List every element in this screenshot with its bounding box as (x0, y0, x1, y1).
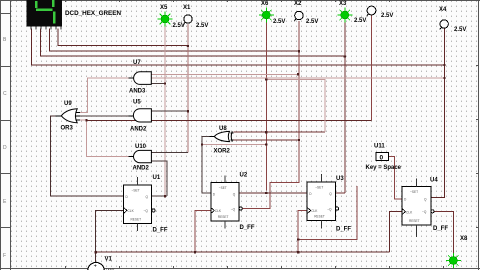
junction on X4 riser at U7 mid line (443, 77, 445, 79)
svg-text:~Q: ~Q (231, 208, 236, 212)
wire X3 riser Q3 (344, 20, 346, 193)
svg-text:~SET: ~SET (315, 186, 323, 190)
svg-text:U9: U9 (64, 101, 72, 107)
junction on X3 riser at pin2 end (344, 55, 346, 57)
svg-text:DCD_HEX_GREEN: DCD_HEX_GREEN (65, 10, 121, 17)
wire U3 CLK riser (298, 211, 307, 253)
svg-text:Key = Space: Key = Space (366, 165, 402, 171)
svg-text:2.5V: 2.5V (381, 13, 393, 19)
svg-text:~Q: ~Q (144, 209, 149, 213)
svg-text:X4: X4 (439, 7, 447, 13)
wire U1 Q line (152, 195, 167, 197)
wire U4 notQ to X8 (435, 211, 454, 256)
flip-flop U2 D_FF (211, 176, 242, 229)
svg-text:U1: U1 (153, 175, 161, 181)
wire U2 CLK riser (195, 211, 211, 253)
svg-text:~Q: ~Q (327, 208, 332, 212)
svg-text:X6: X6 (261, 1, 269, 7)
svg-text:D: D (3, 145, 7, 151)
junction U3 CLK riser main line (297, 251, 299, 253)
svg-text:AND2: AND2 (133, 166, 150, 172)
flip-flop U3 D_FF (307, 174, 339, 229)
wire XOR2 bottom input to X2 riser (234, 139, 299, 141)
probe X3 lit (337, 8, 352, 23)
junction on X2 riser at U7 top line (297, 73, 299, 75)
wire y239 branch (298, 186, 357, 239)
svg-text:CLK: CLK (311, 209, 318, 213)
svg-text:U4: U4 (430, 178, 438, 184)
junction X5 riser at U1 Q line (164, 195, 166, 197)
svg-text:U10: U10 (135, 144, 147, 150)
junction U2 Q at X6 riser (265, 192, 267, 194)
wire OR3 output to U1 D (50, 116, 123, 196)
svg-text:U2: U2 (240, 173, 248, 179)
probe X7 unlit (367, 6, 376, 16)
wire display pin3 to X2 riser (49, 29, 299, 52)
wire main clock line (96, 251, 390, 253)
wire X2 riser to U2 notQ (243, 21, 299, 209)
svg-text:D_FF: D_FF (336, 227, 351, 233)
junction U3 clk riser at y239 branch (297, 238, 299, 240)
wire U10 top input from X1 (151, 152, 188, 154)
junction on X2 riser at XOR bottom line (298, 139, 300, 141)
svg-text:1kHz: 1kHz (106, 267, 115, 270)
svg-text:U8: U8 (219, 126, 227, 132)
junction U2 CLK riser main line (194, 251, 196, 253)
svg-text:U5: U5 (133, 100, 141, 106)
svg-text:D_FF: D_FF (153, 228, 168, 234)
svg-text:AND3: AND3 (129, 89, 146, 95)
svg-text:OR3: OR3 (61, 126, 74, 132)
svg-text:D_FF: D_FF (240, 225, 255, 231)
svg-text:X2: X2 (294, 1, 302, 7)
wire X4 riser Q4 (431, 28, 445, 198)
probe X1 unlit (184, 15, 193, 25)
seven segment display DCD_HEX_GREEN (27, 0, 63, 30)
svg-text:2.5V: 2.5V (306, 19, 318, 25)
junction OR3 bottom input y120 (85, 119, 87, 121)
wire U7 bottom input to X5 riser (151, 82, 165, 84)
svg-text:X1: X1 (183, 5, 191, 11)
svg-text:F: F (3, 253, 6, 259)
wire long y120 net U10out-OR3-X7 (87, 119, 372, 121)
wire AND3 output to OR3 top input (80, 78, 129, 112)
source V1 (88, 263, 115, 270)
svg-text:U3: U3 (336, 176, 344, 182)
svg-text:V1: V1 (105, 257, 113, 263)
svg-text:~SET: ~SET (132, 189, 140, 193)
svg-text:U11: U11 (374, 144, 385, 150)
svg-text:RESET: RESET (314, 215, 325, 219)
probe X4 unlit (440, 20, 449, 30)
wire OR3 middle input to U5 output (80, 115, 129, 117)
op gate U8 XOR2 mirrored (210, 131, 234, 141)
svg-text:RESET: RESET (131, 218, 142, 222)
flip-flop U4 D_FF (402, 179, 434, 238)
wire U7 top input to X2 riser (151, 73, 298, 75)
probe X5 lit (158, 12, 173, 27)
svg-text:C: C (3, 91, 7, 97)
wire display pin1 to X4 riser (32, 29, 445, 65)
ruler letters (3, 37, 7, 259)
switch U11 key (376, 152, 389, 161)
sheet border top line (0, 0, 480, 2)
wire U10 bottom input riser (151, 161, 167, 196)
svg-text:U7: U7 (133, 60, 141, 66)
svg-text:X5: X5 (160, 5, 168, 11)
junction on X1 riser at U5 top input (187, 110, 189, 112)
op gate U10 AND2 mirrored (129, 150, 152, 162)
flip-flop U1 D_FF (124, 177, 155, 231)
wire display pin4 to X1 riser (58, 29, 188, 46)
junction on X1 riser at pin4 end (187, 45, 189, 47)
wire XOR2 top input line (234, 131, 325, 133)
svg-text:AND2: AND2 (130, 127, 147, 133)
svg-text:CLK: CLK (128, 209, 135, 213)
svg-text:0: 0 (380, 155, 384, 162)
probe X8 lit (446, 253, 461, 268)
wire X7 riser (371, 15, 373, 120)
op gate U7 AND3 mirrored (129, 72, 152, 85)
junction XOR out riser at y144 (201, 143, 203, 145)
wire U2 Q to U3 D (239, 192, 307, 194)
junction on X6 riser at y144 line (265, 143, 267, 145)
wire U11 output to U4 D (389, 157, 402, 199)
wire V1 riser to U1 CLK (96, 210, 124, 262)
wire display pin2 to X3 riser (41, 29, 345, 57)
probe X2 unlit (294, 11, 303, 21)
svg-text:RESET: RESET (409, 219, 420, 223)
probe X6 lit (259, 8, 274, 23)
svg-text:CLK: CLK (215, 209, 222, 213)
wire U4 CLK riser (390, 212, 402, 253)
junction V1 top (95, 251, 97, 253)
wire OR3 bottom input down to U10 output (80, 120, 129, 157)
junction on X2 riser at pin3 end (298, 50, 300, 52)
svg-text:~Q: ~Q (422, 210, 427, 214)
wire U2D net to X6 riser (202, 144, 266, 146)
sheet border right line (476, 0, 479, 270)
op gate U9 OR3 mirrored (56, 109, 80, 123)
svg-text:2.5V: 2.5V (454, 27, 466, 33)
junction X5 riser at U7 bottom input (164, 82, 166, 84)
sheet border bottom line (0, 266, 480, 269)
wire X5 riser Q1 (164, 24, 166, 196)
wire XOR2 output to U2 D (202, 137, 211, 194)
wire X6 riser (265, 20, 267, 191)
wire U3 Q to X3 riser (335, 192, 345, 194)
wire Q2 to XOR2 top riser (266, 80, 325, 133)
svg-text:D_FF: D_FF (433, 226, 448, 232)
svg-text:~SET: ~SET (410, 190, 418, 194)
junction on X6 riser at y79 branch (265, 79, 267, 81)
svg-text:2.5V: 2.5V (273, 19, 285, 25)
svg-text:X3: X3 (339, 1, 347, 7)
wire X1 riser (187, 24, 189, 153)
junction on X4 riser at pin1 end (443, 64, 445, 66)
svg-text:2.5V: 2.5V (354, 18, 366, 24)
wire U5 top input from X1 (151, 110, 188, 112)
svg-text:RESET: RESET (218, 215, 229, 219)
junction on X6 riser at XOR top line (265, 131, 267, 133)
svg-text:CLK: CLK (406, 211, 413, 215)
sheet border left ruler (0, 0, 11, 270)
wire U7 middle input to X4 riser (151, 77, 444, 79)
svg-text:+: + (94, 264, 97, 270)
svg-text:XOR2: XOR2 (214, 149, 231, 155)
op gate U5 AND2 mirrored (129, 109, 152, 122)
svg-text:X8: X8 (460, 236, 468, 242)
svg-text:2.5V: 2.5V (196, 23, 208, 29)
svg-text:2.5V: 2.5V (173, 23, 185, 29)
svg-text:~SET: ~SET (219, 186, 227, 190)
